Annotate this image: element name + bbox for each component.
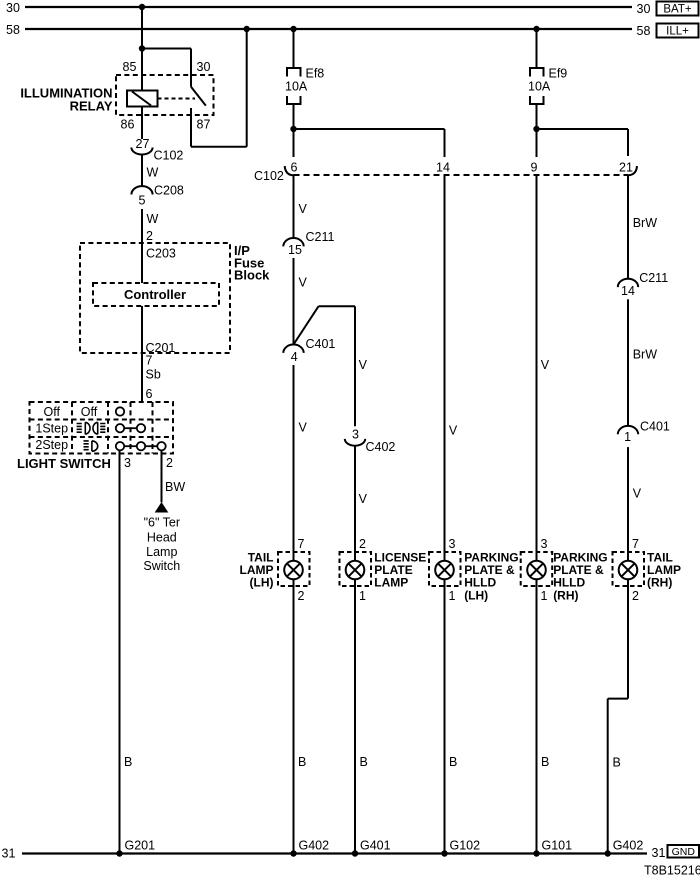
svg-text:2: 2 — [146, 229, 153, 243]
svg-text:1Step: 1Step — [35, 421, 68, 435]
svg-text:21: 21 — [619, 160, 633, 174]
svg-text:Block: Block — [234, 268, 270, 283]
svg-text:3: 3 — [352, 428, 359, 442]
svg-text:C211: C211 — [306, 230, 335, 244]
svg-text:V: V — [359, 358, 368, 372]
svg-text:3: 3 — [124, 456, 131, 470]
svg-text:"6" Ter: "6" Ter — [144, 516, 180, 530]
svg-text:Off: Off — [44, 405, 61, 419]
svg-text:2Step: 2Step — [35, 438, 68, 452]
svg-text:87: 87 — [197, 118, 211, 132]
svg-text:T8B15216: T8B15216 — [644, 864, 700, 878]
svg-text:1: 1 — [624, 430, 631, 444]
svg-text:G402: G402 — [613, 839, 644, 853]
svg-text:G101: G101 — [542, 839, 573, 853]
svg-text:2: 2 — [632, 589, 639, 603]
svg-text:V: V — [541, 358, 550, 372]
svg-text:58: 58 — [6, 23, 20, 37]
svg-text:7: 7 — [632, 537, 639, 551]
svg-text:30: 30 — [197, 60, 211, 74]
svg-text:ILL+: ILL+ — [666, 26, 689, 38]
svg-text:14: 14 — [436, 160, 450, 174]
svg-text:G401: G401 — [360, 839, 391, 853]
svg-text:2: 2 — [298, 589, 305, 603]
svg-text:C211: C211 — [639, 271, 668, 285]
svg-text:14: 14 — [621, 284, 635, 298]
svg-text:Sb: Sb — [146, 368, 161, 382]
svg-text:(LH): (LH) — [250, 576, 274, 590]
svg-text:6: 6 — [291, 160, 298, 174]
svg-text:9: 9 — [531, 160, 538, 174]
svg-text:10A: 10A — [285, 80, 308, 94]
svg-text:TAIL: TAIL — [647, 550, 673, 564]
svg-text:BrW: BrW — [633, 348, 658, 362]
svg-text:2: 2 — [166, 456, 173, 470]
svg-text:C401: C401 — [306, 337, 336, 351]
svg-text:G201: G201 — [125, 839, 156, 853]
svg-text:V: V — [359, 492, 368, 506]
svg-text:15: 15 — [288, 243, 302, 257]
svg-text:LICENSE: LICENSE — [374, 550, 426, 564]
svg-text:Controller: Controller — [124, 287, 186, 302]
svg-text:(RH): (RH) — [647, 576, 672, 590]
svg-text:PARKING: PARKING — [553, 550, 607, 564]
svg-text:V: V — [299, 202, 308, 216]
svg-text:Ef9: Ef9 — [549, 67, 568, 81]
svg-text:Off: Off — [81, 405, 98, 419]
svg-text:B: B — [124, 755, 132, 769]
svg-text:3: 3 — [541, 537, 548, 551]
svg-text:86: 86 — [121, 118, 135, 132]
svg-text:C102: C102 — [254, 169, 284, 183]
svg-text:C102: C102 — [154, 149, 184, 163]
svg-text:85: 85 — [123, 60, 137, 74]
svg-text:G402: G402 — [299, 839, 330, 853]
svg-text:BW: BW — [165, 480, 185, 494]
svg-text:W: W — [147, 212, 159, 226]
svg-text:Ef8: Ef8 — [306, 67, 325, 81]
svg-text:V: V — [633, 487, 642, 501]
svg-text:BAT+: BAT+ — [663, 4, 692, 16]
svg-text:B: B — [298, 755, 306, 769]
svg-text:B: B — [449, 755, 457, 769]
svg-text:C402: C402 — [366, 440, 396, 454]
svg-text:C203: C203 — [146, 247, 176, 261]
svg-text:30: 30 — [637, 2, 651, 16]
svg-text:10A: 10A — [528, 80, 551, 94]
svg-text:3: 3 — [449, 537, 456, 551]
svg-text:Switch: Switch — [143, 559, 180, 573]
svg-text:LIGHT SWITCH: LIGHT SWITCH — [17, 456, 111, 471]
svg-text:1: 1 — [359, 589, 366, 603]
svg-text:PARKING: PARKING — [464, 550, 518, 564]
svg-text:27: 27 — [136, 137, 150, 151]
svg-text:30: 30 — [6, 1, 20, 15]
svg-text:TAIL: TAIL — [248, 550, 274, 564]
svg-text:7: 7 — [298, 537, 305, 551]
svg-text:(RH): (RH) — [553, 588, 578, 602]
svg-text:V: V — [299, 420, 308, 434]
svg-text:V: V — [299, 275, 308, 289]
svg-text:C401: C401 — [640, 420, 670, 434]
svg-text:GND: GND — [672, 846, 696, 858]
svg-text:B: B — [360, 755, 368, 769]
svg-text:RELAY: RELAY — [70, 99, 113, 114]
svg-text:W: W — [147, 166, 159, 180]
svg-text:(LH): (LH) — [464, 588, 488, 602]
svg-text:G102: G102 — [450, 839, 481, 853]
svg-text:B: B — [613, 756, 621, 770]
svg-text:31: 31 — [2, 847, 16, 861]
svg-text:B: B — [541, 755, 549, 769]
svg-text:2: 2 — [359, 537, 366, 551]
svg-text:1: 1 — [541, 589, 548, 603]
svg-text:V: V — [449, 424, 458, 438]
svg-text:58: 58 — [637, 24, 651, 38]
svg-text:C208: C208 — [154, 184, 184, 198]
svg-text:7: 7 — [146, 354, 153, 368]
svg-text:1: 1 — [449, 589, 456, 603]
svg-text:Lamp: Lamp — [146, 545, 177, 559]
svg-text:31: 31 — [652, 846, 666, 860]
svg-text:Head: Head — [147, 530, 177, 544]
svg-text:LAMP: LAMP — [374, 576, 408, 590]
svg-text:4: 4 — [291, 350, 298, 364]
svg-text:6: 6 — [146, 387, 153, 401]
svg-text:5: 5 — [139, 194, 146, 208]
svg-text:BrW: BrW — [633, 216, 658, 230]
